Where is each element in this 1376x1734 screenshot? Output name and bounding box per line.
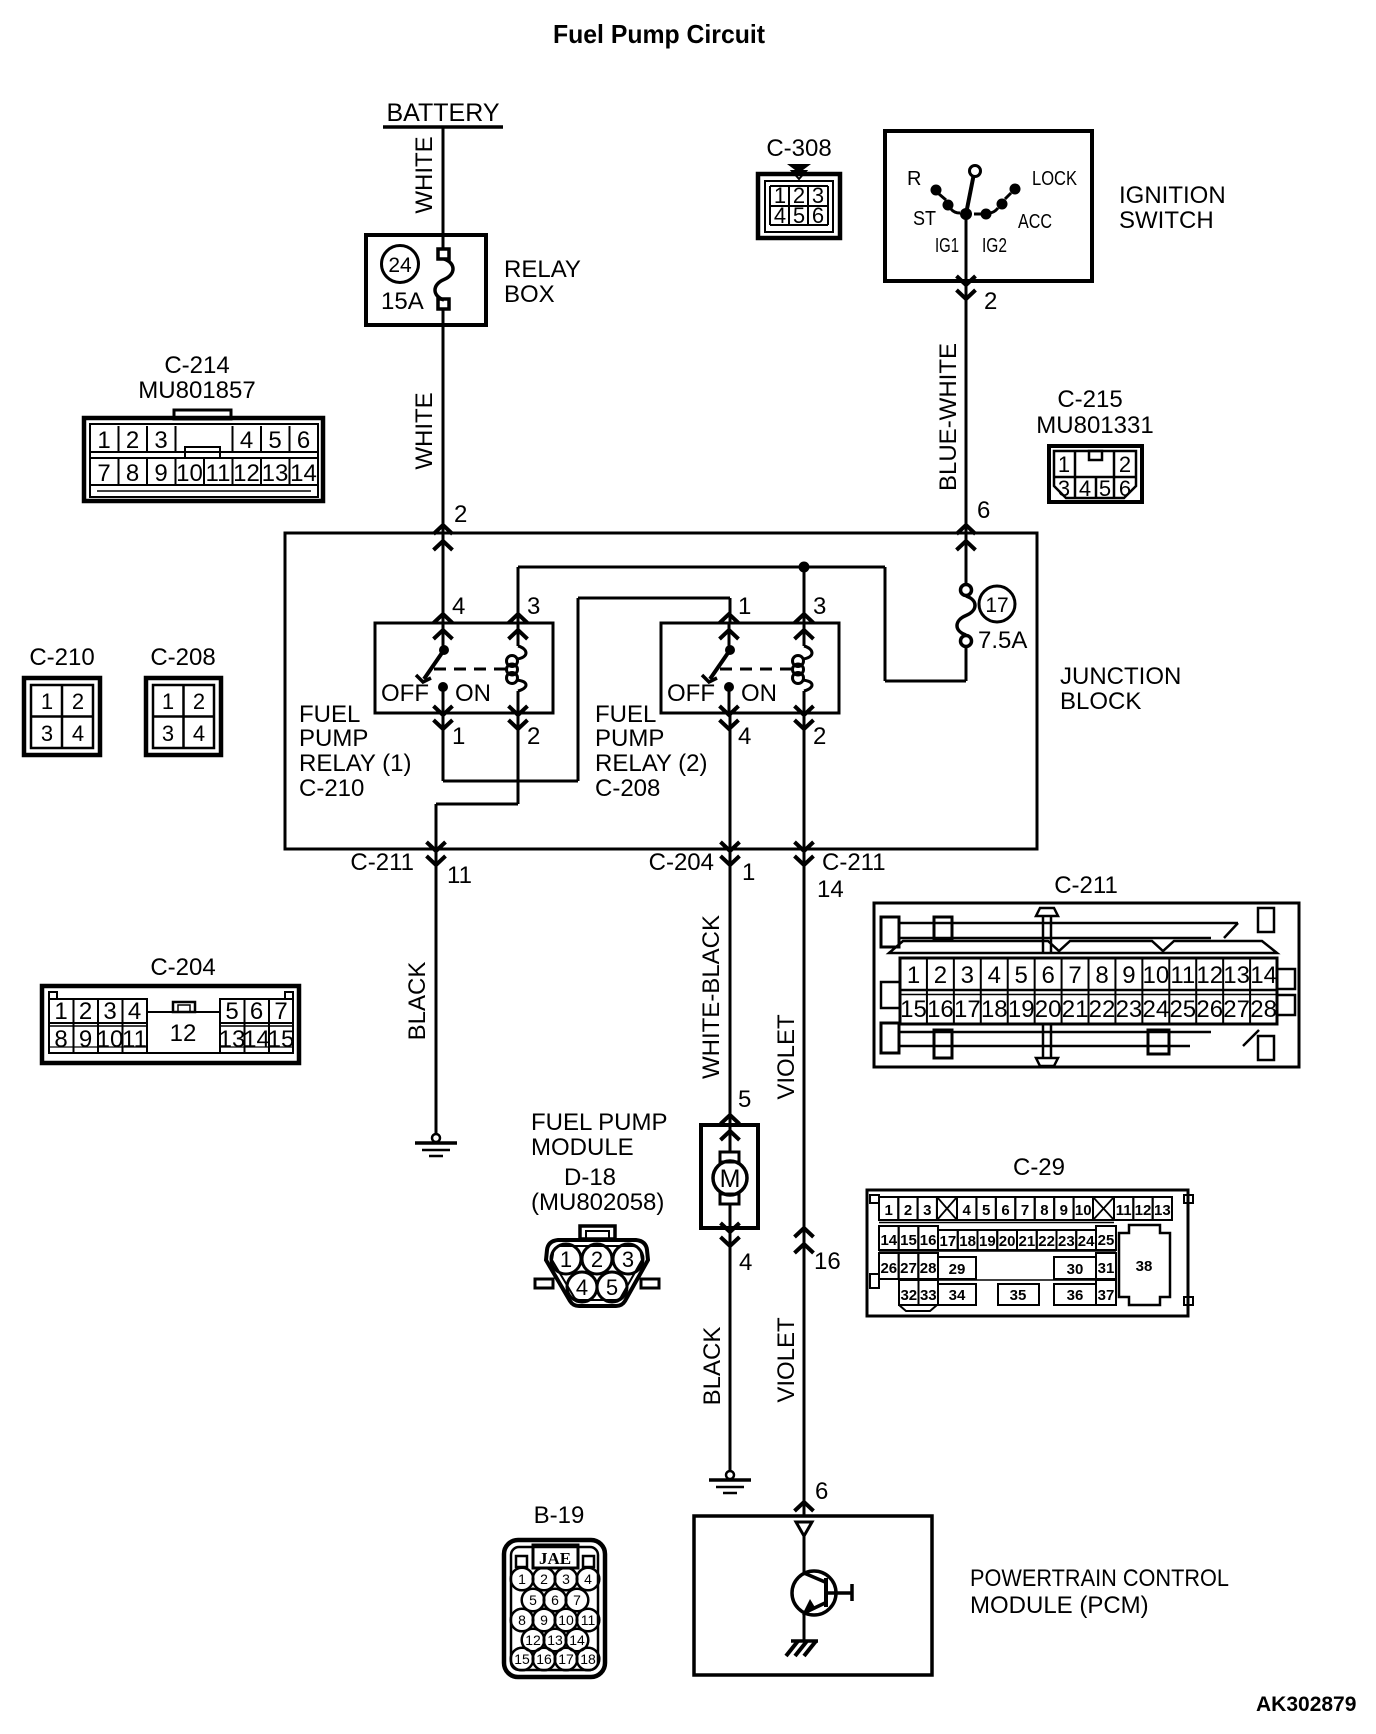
svg-text:BLUE-WHITE: BLUE-WHITE bbox=[935, 343, 962, 491]
svg-text:26: 26 bbox=[1196, 996, 1223, 1023]
svg-text:4: 4 bbox=[739, 1249, 752, 1276]
svg-text:8: 8 bbox=[54, 1026, 67, 1053]
wire: triangle to transistor bbox=[803, 1536, 806, 1573]
svg-text:C-29: C-29 bbox=[1013, 1154, 1065, 1181]
C-29 pin 16 connector crossing bbox=[795, 1228, 841, 1275]
svg-text:29: 29 bbox=[949, 1261, 966, 1278]
svg-text:JUNCTION: JUNCTION bbox=[1060, 663, 1181, 690]
svg-text:1: 1 bbox=[97, 427, 110, 454]
svg-text:VIOLET: VIOLET bbox=[773, 1014, 800, 1100]
wire: battery to relay box, WHITE bbox=[411, 127, 443, 236]
svg-text:19: 19 bbox=[979, 1233, 996, 1250]
svg-text:7: 7 bbox=[1068, 962, 1081, 989]
svg-text:2: 2 bbox=[1119, 452, 1131, 477]
svg-text:19: 19 bbox=[1008, 996, 1035, 1023]
svg-text:10: 10 bbox=[1075, 1202, 1092, 1219]
svg-text:2: 2 bbox=[813, 723, 826, 750]
svg-text:AK302879: AK302879 bbox=[1256, 1693, 1356, 1716]
svg-text:9: 9 bbox=[540, 1612, 548, 1628]
svg-text:6: 6 bbox=[297, 427, 310, 454]
svg-text:2: 2 bbox=[72, 689, 84, 714]
ignition switch contacts bbox=[907, 166, 1078, 258]
svg-text:2: 2 bbox=[126, 427, 139, 454]
svg-text:FUEL: FUEL bbox=[299, 701, 360, 728]
svg-text:38: 38 bbox=[1136, 1258, 1153, 1275]
wire: C-211 pin 14 to PCM, VIOLET bbox=[773, 849, 804, 1516]
svg-text:1: 1 bbox=[742, 859, 755, 886]
svg-text:C-308: C-308 bbox=[766, 135, 831, 162]
svg-text:WHITE: WHITE bbox=[411, 136, 438, 213]
svg-text:FUEL: FUEL bbox=[595, 701, 656, 728]
fuse 17 7.5A (junction block) bbox=[957, 585, 1027, 655]
svg-text:6: 6 bbox=[977, 497, 990, 524]
svg-text:17: 17 bbox=[954, 996, 981, 1023]
svg-text:WHITE: WHITE bbox=[411, 392, 438, 469]
svg-text:15A: 15A bbox=[381, 288, 424, 315]
svg-text:1: 1 bbox=[518, 1571, 526, 1587]
wire: fuse 17 to coil feed rail bbox=[518, 567, 966, 681]
svg-text:5: 5 bbox=[1015, 962, 1028, 989]
wire: C-211 pin 11 to ground, BLACK bbox=[404, 849, 436, 1135]
svg-text:32: 32 bbox=[900, 1287, 917, 1304]
wire: fuel pump to ground, BLACK bbox=[699, 1228, 730, 1472]
wire: junction entry to fuse 17 bbox=[965, 533, 968, 585]
svg-text:1: 1 bbox=[560, 1247, 572, 1272]
svg-text:C-211: C-211 bbox=[822, 849, 886, 876]
svg-text:2: 2 bbox=[934, 962, 947, 989]
svg-text:MU801857: MU801857 bbox=[138, 377, 255, 404]
connector C-211 bbox=[874, 872, 1299, 1067]
svg-text:SWITCH: SWITCH bbox=[1119, 207, 1214, 234]
svg-text:1: 1 bbox=[885, 1202, 893, 1219]
svg-text:13: 13 bbox=[1223, 962, 1250, 989]
svg-text:16: 16 bbox=[814, 1248, 841, 1275]
svg-text:6: 6 bbox=[551, 1592, 559, 1608]
svg-text:11: 11 bbox=[1170, 962, 1195, 989]
wire: C-204 pin 1 to fuel pump, WHITE-BLACK bbox=[698, 849, 755, 1125]
svg-text:2: 2 bbox=[79, 998, 92, 1025]
connector C-210 bbox=[24, 644, 100, 755]
ignition switch box bbox=[885, 131, 1092, 281]
fuel pump relay (1) label bbox=[299, 701, 412, 802]
powertrain control module (PCM) box bbox=[694, 1516, 932, 1675]
svg-text:C-204: C-204 bbox=[150, 954, 215, 981]
svg-text:27: 27 bbox=[900, 1260, 917, 1277]
svg-text:13: 13 bbox=[1154, 1202, 1171, 1219]
svg-text:OFF: OFF bbox=[381, 680, 429, 707]
svg-text:15: 15 bbox=[900, 1232, 917, 1249]
svg-text:ACC: ACC bbox=[1018, 211, 1052, 233]
svg-text:BATTERY: BATTERY bbox=[387, 99, 500, 127]
svg-text:26: 26 bbox=[880, 1260, 897, 1277]
fuel pump module entry pin 5 bbox=[721, 1086, 752, 1140]
svg-text:31: 31 bbox=[1098, 1260, 1115, 1277]
svg-text:MU801331: MU801331 bbox=[1036, 412, 1153, 439]
svg-text:2: 2 bbox=[454, 501, 467, 528]
svg-text:4: 4 bbox=[240, 427, 253, 454]
svg-text:5: 5 bbox=[1099, 476, 1111, 501]
connector C-208 bbox=[146, 644, 221, 755]
D-18 connector face bbox=[535, 1226, 659, 1306]
svg-text:4: 4 bbox=[72, 721, 84, 746]
svg-text:22: 22 bbox=[1089, 996, 1116, 1023]
svg-text:C-208: C-208 bbox=[595, 775, 660, 802]
connector C-204 bbox=[42, 954, 299, 1063]
svg-text:11: 11 bbox=[1116, 1202, 1132, 1219]
junction block pin 6 entry bbox=[957, 497, 991, 550]
svg-text:36: 36 bbox=[1067, 1287, 1084, 1304]
transistor Q (PCM driver) bbox=[792, 1571, 852, 1615]
svg-text:C-214: C-214 bbox=[164, 352, 229, 379]
svg-text:28: 28 bbox=[920, 1260, 937, 1277]
svg-text:30: 30 bbox=[1067, 1261, 1084, 1278]
connector C-308 bbox=[758, 135, 840, 238]
svg-text:14: 14 bbox=[569, 1632, 585, 1648]
svg-text:7: 7 bbox=[97, 460, 110, 487]
svg-text:12: 12 bbox=[233, 460, 260, 487]
svg-text:23: 23 bbox=[1058, 1233, 1075, 1250]
svg-text:2: 2 bbox=[527, 723, 540, 750]
svg-text:17: 17 bbox=[985, 594, 1008, 617]
svg-text:21: 21 bbox=[1062, 996, 1089, 1023]
svg-text:1: 1 bbox=[738, 593, 751, 620]
fuel pump relay (2) label bbox=[595, 701, 708, 802]
svg-text:1: 1 bbox=[162, 689, 174, 714]
svg-text:D-18: D-18 bbox=[564, 1164, 616, 1191]
svg-text:11: 11 bbox=[206, 460, 231, 487]
svg-text:10: 10 bbox=[1143, 962, 1170, 989]
svg-text:18: 18 bbox=[981, 996, 1008, 1023]
svg-text:24: 24 bbox=[388, 254, 412, 277]
node: coil feed junction bbox=[799, 562, 810, 573]
svg-text:ST: ST bbox=[913, 208, 936, 230]
svg-text:8: 8 bbox=[1095, 962, 1108, 989]
svg-text:14: 14 bbox=[243, 1026, 270, 1053]
svg-text:R: R bbox=[907, 168, 921, 190]
svg-text:IG1: IG1 bbox=[935, 235, 959, 257]
svg-text:C-210: C-210 bbox=[29, 644, 94, 671]
svg-text:16: 16 bbox=[536, 1651, 552, 1667]
svg-text:C-210: C-210 bbox=[299, 775, 364, 802]
svg-text:3: 3 bbox=[622, 1247, 634, 1272]
junction exit C-211 pin 11 bbox=[350, 842, 472, 889]
svg-text:4: 4 bbox=[193, 721, 205, 746]
svg-text:9: 9 bbox=[1122, 962, 1135, 989]
svg-text:C-211: C-211 bbox=[1054, 872, 1118, 899]
svg-text:21: 21 bbox=[1019, 1233, 1036, 1250]
svg-text:6: 6 bbox=[250, 998, 263, 1025]
svg-text:11: 11 bbox=[122, 1026, 147, 1053]
svg-text:3: 3 bbox=[961, 962, 974, 989]
svg-text:22: 22 bbox=[1038, 1233, 1055, 1250]
svg-text:1: 1 bbox=[41, 689, 53, 714]
wire: relay box to junction block, WHITE bbox=[411, 325, 443, 533]
svg-text:POWERTRAIN CONTROL: POWERTRAIN CONTROL bbox=[970, 1565, 1229, 1592]
svg-text:12: 12 bbox=[1135, 1202, 1152, 1219]
svg-text:3: 3 bbox=[41, 721, 53, 746]
relay box bbox=[366, 235, 486, 325]
svg-text:3: 3 bbox=[103, 998, 116, 1025]
svg-text:ON: ON bbox=[741, 680, 777, 707]
svg-text:12: 12 bbox=[170, 1020, 197, 1047]
svg-text:10: 10 bbox=[558, 1612, 574, 1628]
svg-text:C-204: C-204 bbox=[649, 849, 714, 876]
svg-text:12: 12 bbox=[525, 1632, 541, 1648]
svg-text:M: M bbox=[720, 1165, 741, 1193]
svg-text:5: 5 bbox=[793, 203, 805, 228]
svg-text:C-211: C-211 bbox=[350, 849, 414, 876]
battery bbox=[383, 99, 503, 127]
svg-text:37: 37 bbox=[1098, 1287, 1115, 1304]
svg-text:BOX: BOX bbox=[504, 281, 555, 308]
svg-text:IG2: IG2 bbox=[982, 235, 1007, 257]
svg-text:BLACK: BLACK bbox=[404, 962, 431, 1041]
svg-text:BLACK: BLACK bbox=[699, 1327, 726, 1406]
svg-text:20: 20 bbox=[1035, 996, 1062, 1023]
svg-text:4: 4 bbox=[576, 1275, 588, 1300]
svg-text:2: 2 bbox=[984, 288, 997, 315]
svg-text:RELAY (1): RELAY (1) bbox=[299, 750, 412, 777]
svg-text:15: 15 bbox=[268, 1026, 295, 1053]
connector B-19 bbox=[504, 1502, 605, 1677]
svg-text:RELAY: RELAY bbox=[504, 256, 581, 283]
svg-text:ON: ON bbox=[455, 680, 491, 707]
junction exit C-204 pin 1 bbox=[649, 842, 740, 876]
svg-text:2: 2 bbox=[540, 1571, 548, 1587]
chassis ground (PCM) bbox=[786, 1641, 818, 1656]
svg-text:6: 6 bbox=[1001, 1202, 1009, 1219]
svg-text:9: 9 bbox=[154, 460, 167, 487]
svg-text:WHITE-BLACK: WHITE-BLACK bbox=[698, 915, 725, 1079]
svg-text:5: 5 bbox=[606, 1275, 618, 1300]
svg-text:3: 3 bbox=[1058, 476, 1070, 501]
svg-text:25: 25 bbox=[1098, 1232, 1115, 1249]
svg-text:8: 8 bbox=[518, 1612, 526, 1628]
fuse 24 15A (in relay box) bbox=[381, 236, 453, 325]
svg-text:10: 10 bbox=[176, 460, 203, 487]
svg-text:25: 25 bbox=[1169, 996, 1196, 1023]
svg-text:35: 35 bbox=[1010, 1287, 1027, 1304]
svg-text:5: 5 bbox=[268, 427, 281, 454]
svg-text:1: 1 bbox=[452, 723, 465, 750]
svg-text:FUEL PUMP: FUEL PUMP bbox=[531, 1109, 667, 1136]
svg-text:14: 14 bbox=[880, 1232, 897, 1249]
svg-text:BLOCK: BLOCK bbox=[1060, 688, 1141, 715]
svg-text:OFF: OFF bbox=[667, 680, 715, 707]
svg-text:5: 5 bbox=[225, 998, 238, 1025]
svg-text:14: 14 bbox=[1250, 962, 1277, 989]
svg-text:VIOLET: VIOLET bbox=[773, 1317, 800, 1403]
svg-text:6: 6 bbox=[1119, 476, 1131, 501]
svg-text:JAE: JAE bbox=[539, 1549, 571, 1568]
wire: relay 2 pin 4 down bbox=[729, 713, 732, 849]
svg-text:Fuel Pump Circuit: Fuel Pump Circuit bbox=[553, 19, 765, 49]
svg-text:13: 13 bbox=[262, 460, 289, 487]
PCM entry pin 6 bbox=[795, 1478, 829, 1511]
svg-text:4: 4 bbox=[774, 203, 786, 228]
svg-text:11: 11 bbox=[447, 862, 472, 889]
svg-text:12: 12 bbox=[1196, 962, 1223, 989]
svg-text:7: 7 bbox=[274, 998, 287, 1025]
svg-text:2: 2 bbox=[904, 1202, 912, 1219]
fuel pump relay (1) C-210 bbox=[375, 593, 553, 750]
svg-text:3: 3 bbox=[813, 593, 826, 620]
svg-text:3: 3 bbox=[154, 427, 167, 454]
wire: rail down to relay 1 pin 3 bbox=[517, 567, 520, 623]
svg-text:20: 20 bbox=[999, 1233, 1016, 1250]
wire: transistor emitter to chassis ground bbox=[803, 1614, 806, 1641]
svg-text:4: 4 bbox=[584, 1571, 592, 1587]
svg-text:7.5A: 7.5A bbox=[978, 627, 1027, 654]
junction block bbox=[285, 533, 1037, 849]
fuel pump motor M bbox=[701, 1125, 758, 1228]
svg-text:9: 9 bbox=[79, 1026, 92, 1053]
svg-text:6: 6 bbox=[812, 203, 824, 228]
svg-text:PUMP: PUMP bbox=[595, 725, 664, 752]
ignition switch exit, pin 2 bbox=[957, 276, 998, 315]
svg-text:10: 10 bbox=[97, 1026, 124, 1053]
wire: ignition to junction block, BLUE-WHITE bbox=[935, 281, 966, 533]
svg-text:4: 4 bbox=[988, 962, 1001, 989]
svg-text:6: 6 bbox=[815, 1478, 828, 1505]
svg-text:17: 17 bbox=[940, 1233, 957, 1250]
svg-text:23: 23 bbox=[1116, 996, 1143, 1023]
svg-text:RELAY (2): RELAY (2) bbox=[595, 750, 708, 777]
svg-text:24: 24 bbox=[1143, 996, 1170, 1023]
svg-text:28: 28 bbox=[1250, 996, 1277, 1023]
svg-text:8: 8 bbox=[126, 460, 139, 487]
wire: rail down to relay 2 pin 3 bbox=[803, 567, 806, 623]
svg-text:33: 33 bbox=[920, 1287, 937, 1304]
svg-text:1: 1 bbox=[1058, 452, 1070, 477]
wire: relay 1 pin 2 to C-211 pin 11 bbox=[436, 713, 518, 849]
ground (C-211 pin 11 circuit) bbox=[415, 1134, 457, 1156]
svg-text:4: 4 bbox=[963, 1202, 972, 1219]
svg-text:2: 2 bbox=[193, 689, 205, 714]
svg-text:5: 5 bbox=[982, 1202, 990, 1219]
svg-text:16: 16 bbox=[920, 1232, 937, 1249]
svg-text:C-208: C-208 bbox=[150, 644, 215, 671]
svg-text:7: 7 bbox=[1021, 1202, 1029, 1219]
wire: relay 1 pin 1 to relay 2 pin 1 bbox=[443, 598, 730, 781]
svg-text:5: 5 bbox=[738, 1086, 751, 1113]
connector C-29 bbox=[867, 1154, 1193, 1316]
svg-text:15: 15 bbox=[514, 1651, 530, 1667]
PCM input triangle bbox=[796, 1522, 812, 1536]
connector C-215 bbox=[1036, 386, 1153, 502]
wire: ignition switch IG2 down bbox=[965, 213, 968, 281]
svg-text:4: 4 bbox=[128, 998, 141, 1025]
svg-text:8: 8 bbox=[1040, 1202, 1048, 1219]
svg-text:18: 18 bbox=[959, 1233, 976, 1250]
svg-text:4: 4 bbox=[1079, 476, 1091, 501]
svg-text:14: 14 bbox=[817, 876, 844, 903]
svg-text:1: 1 bbox=[907, 962, 920, 989]
svg-text:16: 16 bbox=[927, 996, 954, 1023]
svg-text:IGNITION: IGNITION bbox=[1119, 182, 1226, 209]
svg-text:3: 3 bbox=[527, 593, 540, 620]
wire: relay 2 pin 2 down bbox=[803, 713, 806, 849]
fuel pump module exit pin 4 bbox=[721, 1223, 753, 1276]
svg-text:B-19: B-19 bbox=[534, 1502, 585, 1529]
svg-text:3: 3 bbox=[562, 1571, 570, 1587]
svg-text:7: 7 bbox=[573, 1592, 581, 1608]
svg-text:4: 4 bbox=[738, 723, 751, 750]
svg-text:5: 5 bbox=[529, 1592, 537, 1608]
connector C-214 bbox=[84, 352, 323, 501]
svg-text:4: 4 bbox=[452, 593, 465, 620]
svg-text:MODULE: MODULE bbox=[531, 1134, 634, 1161]
svg-text:LOCK: LOCK bbox=[1032, 168, 1078, 190]
wire: junction entry to relay 1 pin 4 bbox=[442, 533, 445, 623]
fuel pump module label bbox=[531, 1109, 667, 1216]
svg-text:9: 9 bbox=[1060, 1202, 1068, 1219]
svg-text:6: 6 bbox=[1041, 962, 1054, 989]
svg-text:2: 2 bbox=[591, 1247, 603, 1272]
svg-text:MODULE (PCM): MODULE (PCM) bbox=[970, 1592, 1149, 1619]
svg-text:18: 18 bbox=[580, 1651, 596, 1667]
svg-text:3: 3 bbox=[162, 721, 174, 746]
junction block pin 2 entry bbox=[434, 501, 468, 550]
junction exit C-211 pin 14 bbox=[795, 842, 886, 903]
svg-text:34: 34 bbox=[949, 1287, 966, 1304]
svg-text:11: 11 bbox=[581, 1612, 596, 1628]
svg-text:C-215: C-215 bbox=[1057, 386, 1122, 413]
svg-text:14: 14 bbox=[290, 460, 317, 487]
svg-text:13: 13 bbox=[219, 1026, 246, 1053]
fuel pump relay (2) C-208 bbox=[661, 593, 839, 750]
svg-text:15: 15 bbox=[900, 996, 927, 1023]
ground (fuel pump) bbox=[709, 1471, 751, 1493]
svg-text:27: 27 bbox=[1223, 996, 1250, 1023]
svg-text:13: 13 bbox=[547, 1632, 563, 1648]
svg-text:PUMP: PUMP bbox=[299, 725, 368, 752]
svg-text:24: 24 bbox=[1078, 1233, 1095, 1250]
svg-text:(MU802058): (MU802058) bbox=[531, 1189, 664, 1216]
svg-text:1: 1 bbox=[54, 998, 67, 1025]
svg-text:3: 3 bbox=[923, 1202, 931, 1219]
svg-text:17: 17 bbox=[558, 1651, 574, 1667]
